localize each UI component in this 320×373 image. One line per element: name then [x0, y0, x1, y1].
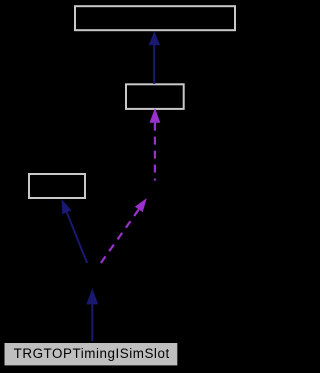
- edge: junction to hidden right node (dashed diagonal arrow): [100, 198, 147, 264]
- node: top base class box: [75, 6, 235, 30]
- svg-text:TRGTOPTimingISimSlot: TRGTOPTimingISimSlot: [14, 346, 170, 361]
- node: current class TRGTOPTimingISimSlot: [4, 342, 179, 366]
- node: middle base class box: [126, 84, 184, 109]
- edge: junction to left box (solid diagonal arrow): [62, 199, 88, 263]
- edge: bottom box to hidden junction node (solid arrow): [86, 288, 98, 341]
- edge: middle box to top box (solid inheritance arrow): [149, 31, 161, 84]
- edge: hidden node to middle box (dashed template arrow): [150, 108, 161, 181]
- node: left base class box: [29, 174, 85, 198]
